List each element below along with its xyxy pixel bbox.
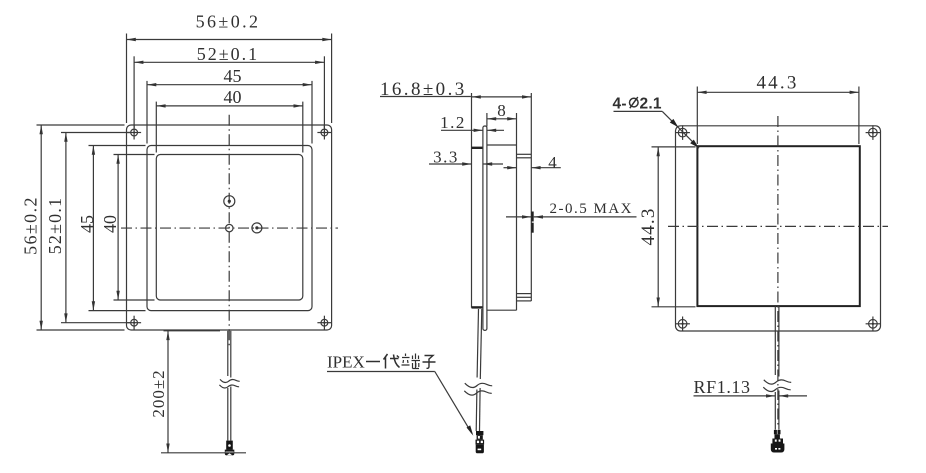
svg-text:IPEX: IPEX [327, 353, 365, 372]
side housing [487, 113, 517, 310]
back hole top-left [675, 125, 690, 140]
side patch bottom edge [472, 306, 483, 308]
dim 45 left [89, 146, 146, 311]
svg-text:56±0.2: 56±0.2 [20, 196, 40, 255]
label chinese 一代端子 [366, 354, 436, 369]
svg-text:40: 40 [100, 215, 120, 233]
side mounting plate [483, 126, 487, 330]
front 45 square [147, 146, 312, 311]
back hole top-right [866, 125, 881, 140]
svg-text:4-: 4- [613, 95, 627, 112]
front horizontal centerline [121, 227, 338, 229]
dim 52±0.1 top [134, 56, 324, 128]
svg-text:2.1: 2.1 [640, 95, 662, 112]
front cable break [219, 379, 239, 388]
diameter symbol [630, 97, 639, 108]
dim 40 top [156, 102, 302, 153]
dim 44.3 left [652, 147, 696, 307]
side back cover [517, 93, 532, 301]
svg-text:45: 45 [224, 66, 242, 86]
svg-text:2-0.5 MAX: 2-0.5 MAX [550, 201, 634, 217]
front feed circle upper [224, 196, 235, 207]
svg-text:3.3: 3.3 [433, 148, 459, 167]
dim 52±0.1 left [61, 133, 130, 323]
svg-text:4: 4 [548, 153, 557, 172]
svg-text:8: 8 [497, 101, 506, 120]
back vertical centerline [777, 116, 779, 428]
svg-text:RF1.13: RF1.13 [694, 377, 751, 397]
front plate outline [127, 125, 332, 330]
dim 56±0.2 left [37, 125, 125, 330]
dim 56±0.2 top: line [127, 34, 332, 124]
svg-text:44.3: 44.3 [756, 73, 798, 94]
front vertical centerline [228, 115, 230, 348]
front hole bottom-right [317, 316, 331, 330]
svg-text:200±2: 200±2 [149, 369, 168, 417]
front IPEX connector [225, 441, 235, 456]
back cable [775, 306, 779, 430]
back cable break [763, 380, 791, 392]
side snap bumps 2-0.5 [531, 212, 533, 233]
front cable [228, 331, 231, 441]
svg-text:40: 40 [224, 87, 242, 107]
front feed circle right [252, 223, 262, 233]
svg-text:1.2: 1.2 [440, 113, 466, 132]
back horizontal centerline [668, 225, 888, 227]
svg-text:52±0.1: 52±0.1 [197, 44, 259, 64]
front hole bottom-left [127, 316, 141, 330]
dim 1.2 [441, 129, 504, 131]
svg-text:52±0.1: 52±0.1 [45, 197, 65, 255]
label IPEX connector leader [327, 372, 473, 436]
back IPEX connector [771, 430, 785, 453]
side patch top edge [472, 147, 483, 149]
side cable break [464, 383, 492, 395]
side patch front face [471, 93, 473, 308]
dim 4 [504, 167, 561, 169]
dim 8 [487, 113, 517, 127]
svg-text:45: 45 [77, 215, 97, 233]
back hole bottom-left [675, 317, 690, 332]
dim 16.8±0.3 [380, 96, 531, 98]
side IPEX connector [476, 431, 485, 453]
back hole bottom-right [866, 317, 881, 332]
front center circle [226, 224, 233, 231]
back ceramic square [697, 146, 859, 306]
side cable [476, 309, 482, 431]
svg-text:44.3: 44.3 [638, 207, 659, 245]
svg-text:16.8±0.3: 16.8±0.3 [380, 79, 467, 100]
dim RF1.13 [694, 395, 808, 397]
dim 45 top [147, 81, 312, 144]
dim 44.3 top [697, 87, 859, 145]
dim 2-0.5 MAX [506, 216, 637, 218]
dim 200±2 cable length [161, 331, 246, 453]
label 4-d2.1 leader [614, 111, 700, 148]
svg-text:56±0.2: 56±0.2 [196, 12, 261, 32]
front 40 square [156, 155, 302, 301]
back plate outline [676, 126, 881, 331]
front hole top-right [317, 126, 331, 140]
dim 40 left [114, 155, 155, 301]
front hole top-left [127, 126, 141, 140]
dim 3.3 [429, 163, 503, 165]
